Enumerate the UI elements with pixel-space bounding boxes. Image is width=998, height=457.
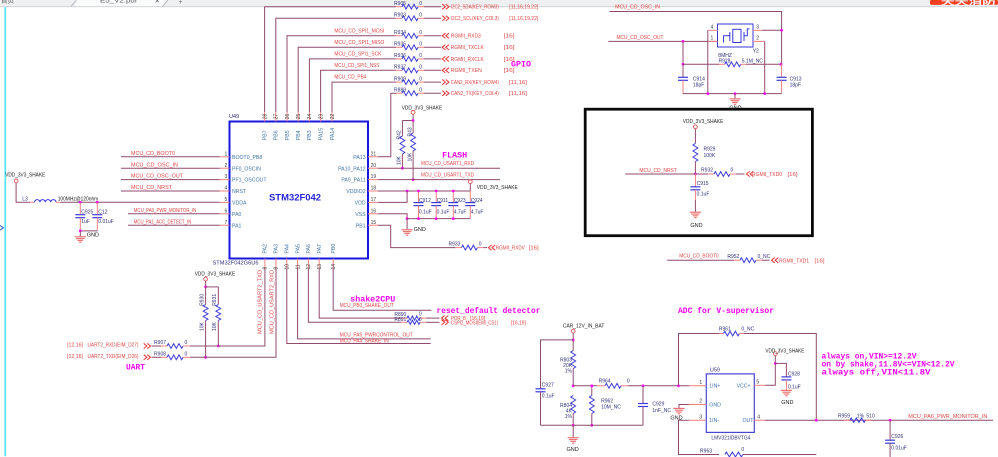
- svg-text:C926: C926: [891, 434, 903, 440]
- svg-text:R909: R909: [394, 76, 406, 82]
- svg-text:NRST: NRST: [232, 189, 247, 195]
- svg-text:VCC+: VCC+: [737, 384, 751, 390]
- svg-text:R932: R932: [701, 168, 713, 174]
- wire adc mid row: [573, 385, 597, 387]
- svg-text:0: 0: [419, 53, 422, 59]
- svg-text:2: 2: [756, 36, 759, 42]
- svg-text:PA0: PA0: [232, 212, 242, 218]
- browser tab bar: [0, 0, 998, 7]
- svg-text:MCU_CD_USART1_TXD: MCU_CD_USART1_TXD: [421, 172, 474, 178]
- svg-text:R930: R930: [199, 294, 205, 306]
- svg-text:MCU_CD_USART2_RXD: MCU_CD_USART2_RXD: [269, 270, 275, 334]
- port arrow RGMII_TXD0: [747, 171, 750, 176]
- mcu pin 11 PA5 stub: [297, 259, 299, 269]
- svg-text:I2C2_SDA(KEY_ROW3): I2C2_SDA(KEY_ROW3): [451, 5, 499, 11]
- wire MCU_CD_OSC_IN: [121, 167, 220, 169]
- mcu pin 5 VDDA stub: [220, 201, 230, 203]
- resistor R905 0 row I2C2_SDA(KEY_ROW3): [396, 6, 402, 8]
- svg-text:5: 5: [756, 380, 759, 386]
- svg-text:[16]: [16]: [504, 34, 516, 40]
- gnd symbol (C928): [781, 389, 792, 391]
- resistor R933 0: [455, 247, 461, 249]
- wire pin16 VSS to gnd rail: [378, 214, 407, 219]
- svg-text:[12,16]: [12,16]: [67, 354, 83, 360]
- svg-text:4: 4: [711, 25, 714, 31]
- svg-text:MCU_CD_SPI1_MOSI: MCU_CD_SPI1_MOSI: [334, 28, 384, 34]
- svg-text:R903: R903: [394, 13, 406, 19]
- svg-text:10K: 10K: [397, 155, 403, 165]
- svg-text:C924: C924: [471, 198, 483, 204]
- port arrow RGMII_TXD1: [772, 258, 775, 263]
- svg-text:CAN2_TX(KEY_COL4): CAN2_TX(KEY_COL4): [451, 91, 499, 97]
- capacitor C914 18pF: [682, 64, 684, 77]
- port arrow I2C2_SCL(KEY_COL3): [442, 16, 445, 21]
- svg-text:2: 2: [699, 399, 702, 405]
- svg-text:reset_default detector: reset_default detector: [437, 307, 541, 316]
- gnd symbol (reset): [694, 200, 696, 212]
- svg-text:首页: 首页: [1, 0, 15, 5]
- svg-text:PB7: PB7: [262, 130, 268, 140]
- svg-text:R43: R43: [407, 127, 413, 136]
- svg-text:PA13: PA13: [353, 155, 365, 161]
- resistor R952 0_NC: [734, 259, 740, 261]
- svg-text:13: 13: [317, 264, 323, 270]
- port arrow I2C2_SDA(KEY_ROW3): [442, 4, 445, 9]
- svg-text:C915: C915: [697, 181, 709, 187]
- wire crystal pin4 to gnd rail: [707, 30, 709, 93]
- svg-text:21: 21: [371, 151, 377, 157]
- svg-text:MCU_CD_OSC_IN: MCU_CD_OSC_IN: [615, 4, 660, 10]
- svg-text:[11,16,19,22]: [11,16,19,22]: [509, 5, 538, 11]
- svg-text:MCU_CD_BOOT0: MCU_CD_BOOT0: [131, 151, 175, 157]
- svg-text:0: 0: [627, 379, 630, 385]
- svg-text:C12: C12: [98, 209, 107, 215]
- svg-text:LMV321IDBVTG4: LMV321IDBVTG4: [711, 436, 750, 442]
- svg-text:MCU_CD_SPI1_SCK: MCU_CD_SPI1_SCK: [334, 51, 381, 57]
- svg-text:PF0_OSCIN: PF0_OSCIN: [232, 166, 261, 172]
- svg-text:RGMII_TXEN: RGMII_TXEN: [451, 68, 482, 74]
- wire decap bottom rail: [407, 218, 470, 220]
- svg-text:STM32F042: STM32F042: [269, 193, 321, 204]
- svg-text:C912: C912: [419, 198, 431, 204]
- crystal pin3 stub: [753, 29, 762, 31]
- wire opamp out row: [765, 419, 993, 421]
- svg-text:2: 2: [225, 163, 228, 169]
- crystal pin4 stub: [708, 29, 718, 31]
- port arrow UART2_TXD: [144, 355, 147, 360]
- port arrow RGMII_RXD3: [442, 33, 445, 38]
- svg-text:FLASH: FLASH: [442, 152, 467, 161]
- svg-text:0: 0: [741, 447, 744, 453]
- svg-text:0: 0: [419, 317, 422, 323]
- svg-text:MCU_CD_OSC_OUT: MCU_CD_OSC_OUT: [131, 174, 184, 180]
- svg-text:MCU_CD_NRST: MCU_CD_NRST: [639, 168, 677, 174]
- svg-text:GND: GND: [781, 400, 793, 406]
- svg-text:1%: 1%: [565, 369, 573, 375]
- svg-text:1%: 1%: [565, 414, 573, 420]
- wire MCU_CD_BOOT0 row: [667, 259, 734, 261]
- mcu pin 3 PF1_OSCOUT stub: [220, 179, 230, 181]
- svg-text:MCU_CD_OSC_IN: MCU_CD_OSC_IN: [131, 162, 178, 168]
- mcu pin 10 PA4 stub: [286, 259, 288, 269]
- svg-text:RGMII_RXD3: RGMII_RXD3: [451, 34, 481, 40]
- wire pullup top tee: [402, 120, 413, 122]
- svg-text:[16]: [16]: [504, 57, 516, 63]
- mcu U49 chip body: [230, 122, 369, 259]
- wire MCU_CD_OSC_IN to crystal pin3: [610, 12, 782, 31]
- svg-text:28: 28: [262, 114, 268, 120]
- svg-text:[16,19]: [16,19]: [511, 320, 526, 326]
- svg-text:0: 0: [479, 241, 482, 247]
- svg-text:1nF_NC: 1nF_NC: [652, 408, 671, 414]
- svg-text:0: 0: [185, 351, 188, 357]
- svg-text:9: 9: [274, 267, 280, 270]
- svg-text:R929: R929: [704, 147, 716, 153]
- svg-text:510: 510: [866, 414, 875, 420]
- svg-text:MCU_CD_SPI1_NSS: MCU_CD_SPI1_NSS: [334, 63, 379, 69]
- svg-text:PA6: PA6: [306, 244, 312, 254]
- resistor R962 10M_NC: [591, 386, 593, 396]
- svg-text:VDD: VDD: [355, 201, 366, 207]
- svg-text:10K: 10K: [199, 321, 205, 331]
- wire MCU_PA0_PWR_MONITOR_IN: [128, 213, 220, 215]
- svg-text:1: 1: [699, 380, 702, 386]
- svg-text:GND: GND: [670, 416, 682, 422]
- svg-text:✕: ✕: [155, 0, 160, 5]
- svg-text:R42: R42: [397, 130, 403, 139]
- svg-text:U59: U59: [710, 367, 720, 373]
- svg-text:10M_NC: 10M_NC: [601, 405, 621, 411]
- svg-text:RGMII_TXCLK: RGMII_TXCLK: [451, 45, 484, 51]
- svg-text:0: 0: [419, 13, 422, 19]
- svg-text:[16]: [16]: [504, 45, 516, 51]
- svg-text:6: 6: [225, 208, 228, 214]
- wire pin 28 to row 1: [265, 7, 396, 112]
- svg-text:C928: C928: [788, 371, 800, 377]
- wire car12v to C927 branch: [541, 340, 574, 389]
- svg-text:5: 5: [225, 197, 228, 203]
- svg-text:0: 0: [419, 42, 422, 48]
- svg-text:RGMII_RXDV: RGMII_RXDV: [496, 246, 525, 252]
- svg-text:Y2: Y2: [753, 48, 759, 54]
- svg-text:C925: C925: [81, 209, 93, 215]
- mcu pin 28 PB7 stub: [264, 112, 266, 122]
- power symbol CAR_12V_IN_BAT: [571, 329, 575, 333]
- svg-text:0.1uF: 0.1uF: [419, 209, 432, 215]
- wire crystal pin2 down: [764, 41, 766, 93]
- resistor R908 0: [152, 356, 162, 358]
- svg-text:[16]: [16]: [529, 246, 539, 252]
- svg-text:E5_V2.pdf: E5_V2.pdf: [100, 0, 137, 5]
- resistor R903 0 row I2C2_SCL(KEY_COL3): [396, 17, 402, 19]
- svg-text:[11,16]: [11,16]: [509, 80, 528, 86]
- resistor R909 0 row CAN2_RX(KEY_ROW4): [396, 81, 402, 83]
- svg-text:MCU_CD_NRST: MCU_CD_NRST: [131, 185, 173, 191]
- svg-text:4: 4: [225, 186, 228, 192]
- power symbol VDD_3V3_SHAKE (decaps): [468, 180, 472, 184]
- svg-text:MCU_CD_OSC_OUT: MCU_CD_OSC_OUT: [617, 35, 665, 41]
- svg-text:7: 7: [225, 220, 228, 226]
- port arrow RGMII_TXEN: [442, 68, 445, 73]
- svg-text:10K: 10K: [212, 321, 218, 331]
- resistor R42 10K pullup: [401, 121, 403, 137]
- wire pin 27 to row 2: [276, 18, 396, 112]
- svg-text:MCU_PA0_PWR_MONITOR_IN: MCU_PA0_PWR_MONITOR_IN: [134, 208, 197, 214]
- mcu pin 9 PA3 stub: [275, 259, 277, 269]
- mcu pin 1 BOOT0_PB8 stub: [220, 156, 230, 158]
- gnd symbol (crystal): [734, 94, 736, 99]
- opamp U59 body: [706, 374, 754, 433]
- wire L3 to VDDA pin5: [61, 201, 220, 203]
- svg-text:VDD_3V3_SHAKE: VDD_3V3_SHAKE: [195, 271, 236, 277]
- wire adc bottom rail: [541, 424, 644, 426]
- svg-text:GND: GND: [690, 223, 702, 229]
- svg-text:MCU_PB0_SHAKE_OUT: MCU_PB0_SHAKE_OUT: [340, 303, 395, 309]
- svg-text:14: 14: [331, 264, 337, 270]
- svg-text:1IN+: 1IN+: [709, 384, 720, 390]
- svg-text:5.1M_NC: 5.1M_NC: [742, 59, 764, 65]
- svg-text:[16]: [16]: [788, 172, 798, 178]
- svg-text:18pF: 18pF: [790, 82, 801, 88]
- svg-text:BOOT0_PB8: BOOT0_PB8: [232, 155, 262, 161]
- capacitor C911 0.1uF: [435, 191, 437, 203]
- crystal pin2 stub: [753, 40, 765, 42]
- resistor R43 10K pullup: [412, 121, 414, 134]
- mcu pin 7 PA1 stub: [220, 224, 230, 226]
- mcu pin 18 VDDIO2 stub: [368, 190, 378, 192]
- wire MCU_CD_OSC_OUT: [121, 179, 220, 181]
- svg-text:GND: GND: [414, 227, 426, 233]
- resistor R890 0: [401, 317, 407, 319]
- svg-text:10K: 10K: [407, 152, 413, 162]
- power symbol VDD_3V3_SHAKE (pullups): [411, 111, 415, 115]
- mcu pin 12 PA6 stub: [307, 259, 309, 269]
- svg-text:CAR_12V_IN_BAT: CAR_12V_IN_BAT: [563, 323, 605, 329]
- svg-text:OUT: OUT: [742, 418, 754, 424]
- svg-text:PA5: PA5: [295, 244, 301, 254]
- opamp pin2 GND: [689, 404, 706, 406]
- svg-text:PA9_PA11: PA9_PA11: [341, 178, 365, 184]
- crystal Y2 body: [718, 24, 754, 47]
- svg-text:26: 26: [285, 114, 291, 120]
- svg-text:C927: C927: [542, 383, 554, 389]
- svg-text:10: 10: [285, 264, 291, 270]
- wire pin13 PA7 to R890: [319, 269, 401, 319]
- wire osc_out branch down to R928: [682, 41, 684, 64]
- wire pin 23 to row 6: [321, 70, 396, 112]
- resistor R804 4K 1%: [571, 396, 576, 414]
- svg-text:MCU_CD_USART2_TXD: MCU_CD_USART2_TXD: [257, 270, 263, 334]
- svg-text:27: 27: [274, 114, 280, 120]
- capacitor C926 0.01uF: [889, 419, 892, 422]
- svg-text:VDDA: VDDA: [232, 201, 247, 207]
- svg-text:0.1uF: 0.1uF: [788, 384, 801, 390]
- resistor R907 0: [152, 345, 162, 347]
- capacitor C915 0.1uF: [694, 174, 696, 187]
- resistor R889 0 row CAN2_TX(KEY_COL4): [396, 92, 402, 94]
- mcu pin 24 PB3 stub: [308, 112, 310, 122]
- wire R964 to opamp in+: [628, 385, 689, 387]
- resistor R803 20K 1%: [572, 340, 574, 351]
- svg-text:MCU_CD_PB4: MCU_CD_PB4: [334, 75, 366, 81]
- svg-text:VSS: VSS: [355, 212, 366, 218]
- svg-text:1: 1: [225, 151, 228, 157]
- mcu pin 2 PF0_OSCIN stub: [220, 167, 230, 169]
- highlight box (reset circuit): [585, 109, 812, 236]
- svg-text:100MHz@120ohm: 100MHz@120ohm: [58, 197, 99, 203]
- svg-text:1: 1: [711, 36, 714, 42]
- svg-text:UART2_TXD(EIM_D26): UART2_TXD(EIM_D26): [88, 354, 139, 360]
- svg-text:GND: GND: [567, 447, 579, 453]
- opamp pin3 IN-: [689, 419, 706, 421]
- svg-text:18: 18: [371, 186, 377, 192]
- wire pin12 PA6 to R891: [308, 269, 401, 323]
- svg-text:PA7: PA7: [317, 244, 323, 254]
- svg-text:3: 3: [225, 174, 228, 180]
- svg-text:R963: R963: [700, 449, 712, 455]
- svg-text:R934: R934: [394, 30, 406, 36]
- svg-text:ADC for V-supervisor: ADC for V-supervisor: [678, 307, 774, 316]
- svg-text:C923: C923: [454, 198, 466, 204]
- svg-text:PA2: PA2: [263, 244, 269, 254]
- mcu pin 22 PA14 stub: [331, 112, 333, 122]
- svg-text:0: 0: [419, 87, 422, 93]
- gnd symbol (left caps): [79, 231, 81, 237]
- wire uart rxd row to pin8: [190, 269, 265, 347]
- svg-text:VDD_3V3_SHAKE: VDD_3V3_SHAKE: [477, 185, 518, 191]
- svg-text:VDD_3V3_SHAKE: VDD_3V3_SHAKE: [5, 173, 45, 179]
- port arrow RGMII_TXCLK: [442, 45, 445, 50]
- mcu pin 17 VDD stub: [368, 201, 378, 203]
- resistor R930 10K: [205, 287, 207, 305]
- red banner top-right: [930, 0, 998, 5]
- svg-text:12: 12: [306, 264, 312, 270]
- resistor R935 0 row RGMII_TXCLK: [396, 46, 402, 48]
- svg-text:19: 19: [371, 174, 377, 180]
- mcu pin 21 PA13 stub: [368, 156, 378, 158]
- svg-text:0_NC: 0_NC: [741, 327, 754, 333]
- svg-text:1IN-: 1IN-: [709, 418, 719, 424]
- port arrow CAN2_TX(KEY_COL4): [442, 91, 445, 96]
- port arrow RGMII_RXCLK: [442, 56, 445, 61]
- gnd symbol (decaps): [406, 219, 408, 230]
- svg-text:STM32F042G6U6: STM32F042G6U6: [213, 261, 259, 267]
- svg-text:always off,VIN<11.8V: always off,VIN<11.8V: [822, 369, 931, 378]
- svg-text:[12,16]: [12,16]: [67, 342, 83, 348]
- wire MCU_CD_NRST row: [625, 173, 708, 175]
- wire vcc to power: [765, 363, 775, 385]
- svg-text:0.1uF: 0.1uF: [437, 209, 450, 215]
- svg-text:VDD_3V3_SHAKE: VDD_3V3_SHAKE: [402, 106, 443, 112]
- svg-text:U49: U49: [229, 114, 239, 120]
- svg-text:PA1: PA1: [232, 223, 242, 229]
- resistor R936 0 row RGMII_RXCLK: [396, 58, 402, 60]
- svg-text:16: 16: [371, 208, 377, 214]
- svg-text:[11,16,19,22]: [11,16,19,22]: [509, 16, 538, 22]
- mcu pin 16 VSS stub: [368, 213, 378, 215]
- svg-text:VDDIO2: VDDIO2: [346, 189, 365, 195]
- wire uart pullup tee: [206, 286, 219, 288]
- svg-text:PB0: PB0: [331, 244, 337, 254]
- port arrow RGMII_RXDV: [488, 245, 491, 250]
- svg-text:25: 25: [296, 114, 302, 120]
- resistor R934 0 row RGMII_RXD3: [396, 35, 402, 37]
- svg-text:PB6: PB6: [274, 130, 280, 140]
- svg-text:8: 8: [263, 267, 269, 270]
- wire MCU_CD_BOOT0: [121, 156, 220, 158]
- mcu pin 4 NRST stub: [220, 190, 230, 192]
- capacitor C927 0.1uF: [536, 388, 546, 390]
- capacitor C913 18pF: [781, 64, 783, 77]
- port arrow CSPI2_MOSI: [442, 320, 445, 325]
- svg-text:PB3: PB3: [307, 130, 313, 140]
- svg-text:23: 23: [318, 114, 324, 120]
- svg-text:4.7uF: 4.7uF: [454, 209, 467, 215]
- resistor R891 0: [401, 321, 407, 323]
- svg-text:0: 0: [185, 340, 188, 346]
- svg-text:3: 3: [756, 25, 759, 31]
- wire decap top rail VDDIO2: [378, 190, 470, 192]
- svg-text:天天消防: 天天消防: [941, 0, 997, 6]
- mcu pin 6 PA0 stub: [220, 213, 230, 215]
- svg-text:R964: R964: [599, 379, 611, 385]
- port arrow UART2_RXD: [144, 343, 147, 348]
- svg-text:+: +: [179, 0, 183, 6]
- svg-text:18pF: 18pF: [693, 82, 704, 88]
- wire uart txd row to pin9: [190, 269, 276, 358]
- svg-text:RGMII_TXD1: RGMII_TXD1: [779, 258, 809, 264]
- svg-text:0: 0: [731, 168, 734, 174]
- svg-text:CSPI2_MOSI(EIM_CS1): CSPI2_MOSI(EIM_CS1): [451, 320, 498, 326]
- wire feedback bottom loop R963: [679, 420, 720, 454]
- svg-text:15: 15: [371, 220, 377, 226]
- capacitor C12 0.01uF: [96, 202, 98, 214]
- power symbol VDD_3V3_SHAKE (uart): [204, 277, 208, 281]
- opamp pin1 IN+: [689, 385, 706, 387]
- svg-text:R891: R891: [394, 317, 406, 323]
- capacitor C912 0.1uF: [418, 191, 420, 203]
- capacitor C928 0.1uF: [775, 363, 786, 377]
- svg-text:R937: R937: [394, 65, 406, 71]
- svg-text:PA14: PA14: [330, 128, 336, 140]
- svg-text:GND: GND: [87, 233, 99, 239]
- svg-text:GND: GND: [709, 402, 721, 408]
- svg-text:0.1uF: 0.1uF: [697, 191, 710, 197]
- svg-text:VDD_3V3_SHAKE: VDD_3V3_SHAKE: [683, 119, 724, 125]
- svg-text:0_NC: 0_NC: [758, 254, 771, 260]
- svg-text:R959: R959: [838, 414, 850, 420]
- svg-text:3: 3: [699, 414, 702, 420]
- resistor R932 0: [708, 173, 714, 175]
- svg-text:PA3: PA3: [274, 244, 280, 254]
- svg-text:R936: R936: [394, 53, 406, 59]
- capacitor C923 4.7uF: [452, 191, 454, 203]
- svg-text:L3: L3: [22, 196, 28, 202]
- mcu pin 15 PB1 stub: [368, 224, 378, 226]
- svg-text:C911: C911: [437, 198, 449, 204]
- wire pin10 PA4 shake in: [287, 269, 431, 344]
- crystal pin1 stub: [708, 40, 718, 42]
- svg-text:0: 0: [419, 76, 422, 82]
- svg-text:RGMII_RXCLK: RGMII_RXCLK: [451, 57, 484, 63]
- port arrow CAN2_RX(KEY_ROW4): [442, 80, 445, 85]
- mcu pin 20 PA10_PA12 stub: [368, 167, 378, 169]
- wire MCU_PA1_ACC_DETECT_IN: [128, 224, 220, 226]
- svg-text:CAN2_RX(KEY_ROW4): CAN2_RX(KEY_ROW4): [451, 80, 499, 86]
- cyan sidebar line: [4, 7, 6, 456]
- svg-text:0: 0: [419, 65, 422, 71]
- mcu pin 8 PA2 stub: [264, 259, 266, 269]
